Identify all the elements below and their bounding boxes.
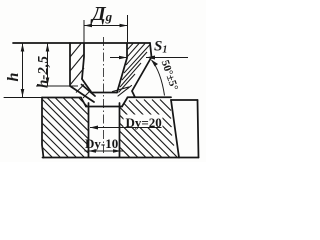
block top right	[128, 96, 172, 98]
left inner wall	[82, 43, 84, 79]
centerline	[103, 37, 105, 153]
left outer wall	[69, 43, 71, 86]
cone inner left	[82, 85, 96, 97]
angle dimension arc 50	[151, 60, 165, 96]
extension line bottom of h	[4, 97, 42, 99]
svg-text:Дg: Дg	[90, 3, 113, 25]
slot right wall	[119, 103, 121, 157]
block bottom	[43, 157, 199, 159]
hatching lower-right block	[120, 100, 178, 158]
block top left	[42, 97, 81, 99]
slot top line	[86, 106, 122, 108]
hatching upper left wall	[70, 44, 84, 86]
dimension Dg	[84, 15, 128, 42]
countersink bevel left	[81, 98, 86, 107]
dimension h-2,5	[36, 44, 78, 87]
svg-text:Dy=20: Dy=20	[126, 115, 162, 130]
column top	[171, 99, 198, 101]
leader Dy=20	[90, 126, 162, 130]
hatching lower-left block	[42, 98, 88, 158]
chamfer 50deg	[132, 57, 152, 97]
column left slant	[171, 100, 179, 158]
svg-text:S1: S1	[154, 39, 167, 56]
svg-text:50°±5°: 50°±5°	[159, 59, 181, 93]
dimension h	[21, 44, 25, 98]
top face line	[13, 42, 150, 44]
svg-text:h-2,5: h-2,5	[36, 55, 52, 88]
dimension Dy-10	[85, 149, 125, 153]
label background Dy=20	[124, 115, 163, 128]
svg-text:h: h	[5, 73, 22, 82]
block left edge	[42, 98, 44, 158]
cavity left cone edge	[82, 79, 92, 93]
right outer wall	[150, 43, 152, 57]
slot left wall	[88, 103, 90, 157]
toe sliver 2	[113, 87, 129, 92]
cavity right edge	[117, 43, 127, 93]
toe sliver 1	[118, 86, 132, 97]
hatching upper right wall	[119, 44, 151, 93]
cavity bottom	[91, 92, 117, 94]
hatching left cone band	[76, 85, 91, 99]
dimension S1 arrows	[110, 56, 188, 60]
countersink bevel right	[122, 98, 128, 107]
column right edge	[198, 100, 199, 158]
cone outer left	[70, 86, 94, 102]
svg-text:Dy-10: Dy-10	[85, 136, 118, 151]
